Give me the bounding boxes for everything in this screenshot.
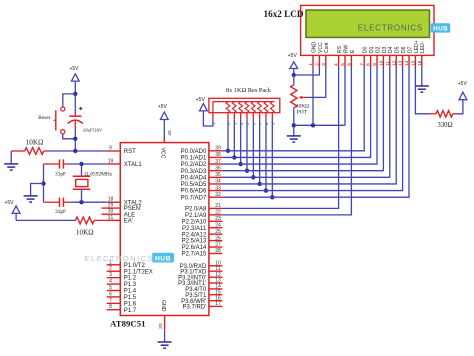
wire pot wiper to LCD pin3 Cont xyxy=(308,67,326,97)
resistor R1 10K (RST pulldown) xyxy=(11,148,48,155)
svg-text:10uF/16V: 10uF/16V xyxy=(83,127,102,132)
svg-text:10KΩ: 10KΩ xyxy=(76,228,94,236)
svg-text:P0.0/AD0: P0.0/AD0 xyxy=(181,149,207,155)
svg-text:P2.6/A14: P2.6/A14 xyxy=(182,245,207,251)
svg-text:VCC: VCC xyxy=(160,148,166,159)
svg-text:D3: D3 xyxy=(382,46,388,53)
svg-text:D6: D6 xyxy=(401,46,407,53)
svg-text:+5V: +5V xyxy=(196,97,206,103)
svg-text:P1.4: P1.4 xyxy=(124,289,137,295)
power +5V (pot) xyxy=(288,53,298,75)
svg-text:LED-: LED- xyxy=(420,41,426,53)
wire P0.2 to LCD D2 xyxy=(222,67,377,164)
svg-text:P1.6: P1.6 xyxy=(124,301,137,307)
svg-text:4: 4 xyxy=(109,279,112,285)
wire res pack output 1 to P0.0 xyxy=(227,119,229,150)
wire P0.4 to LCD D4 xyxy=(222,67,389,177)
wire reset bottom node to RST line xyxy=(74,139,76,151)
wire P0.1 to LCD D1 xyxy=(222,67,370,157)
wire pot top to LCD pin2 VCC xyxy=(294,67,320,75)
svg-text:8x 1KΩ Res Pack: 8x 1KΩ Res Pack xyxy=(226,87,272,94)
svg-text:13: 13 xyxy=(398,60,403,66)
svg-text:40: 40 xyxy=(167,130,173,136)
svg-text:P0.1/AD1: P0.1/AD1 xyxy=(181,156,207,162)
junction reset top node xyxy=(73,92,77,96)
wire res pack output 5 to P0.4 xyxy=(252,119,254,177)
junction crystal bottom / XTAL2 xyxy=(79,200,83,204)
junction P0.1 / res pack xyxy=(232,155,236,159)
svg-text:29: 29 xyxy=(108,203,114,209)
resistor R3 330 ohm xyxy=(430,111,458,117)
wire capacitor common leg xyxy=(43,164,45,202)
svg-text:XTAL1: XTAL1 xyxy=(124,162,143,168)
capacitor C3 10uF/16V electrolytic xyxy=(68,94,83,139)
capacitor C1 33pF (XTAL1) xyxy=(44,159,71,168)
svg-text:P0.5/AD5: P0.5/AD5 xyxy=(181,182,207,188)
svg-text:D7: D7 xyxy=(407,46,413,53)
wire +5V to R2 xyxy=(16,219,75,221)
svg-text:3: 3 xyxy=(321,63,326,66)
svg-text:P2.2/A10: P2.2/A10 xyxy=(182,219,207,225)
wire LCD pin1 GND down xyxy=(312,67,314,125)
svg-text:27: 27 xyxy=(215,242,221,248)
junction P0.4 / res pack xyxy=(251,175,255,179)
svg-text:11: 11 xyxy=(385,61,390,66)
power +5V (backlight) xyxy=(458,81,468,100)
svg-text:19: 19 xyxy=(108,159,114,165)
svg-text:16: 16 xyxy=(417,60,422,66)
svg-text:38: 38 xyxy=(215,152,221,158)
wire P2.1 to LCD E xyxy=(222,67,351,215)
junction RST / reset capacitor xyxy=(73,149,77,153)
junction pot bottom xyxy=(292,123,296,127)
power +5V (EA) xyxy=(4,200,20,221)
svg-text:+5V: +5V xyxy=(288,53,298,59)
svg-text:28: 28 xyxy=(215,248,221,254)
svg-text:VCC: VCC xyxy=(318,42,324,53)
wire RST net xyxy=(48,150,107,152)
svg-text:HUB: HUB xyxy=(433,26,448,33)
wire R3 to +5V xyxy=(458,100,463,114)
svg-text:P2.5/A13: P2.5/A13 xyxy=(182,239,207,245)
svg-text:D2: D2 xyxy=(375,46,381,53)
svg-text:Reset: Reset xyxy=(38,115,50,121)
svg-text:+5V: +5V xyxy=(4,200,14,206)
ground (crystal capacitors) xyxy=(24,196,38,202)
svg-text:P2.3/A11: P2.3/A11 xyxy=(182,226,207,232)
svg-text:RST: RST xyxy=(124,149,136,155)
svg-text:4: 4 xyxy=(334,63,339,66)
svg-text:24: 24 xyxy=(215,222,221,228)
wire C1 to XTAL1 node xyxy=(70,163,107,165)
resistor R2 10K (EA) xyxy=(75,217,120,224)
svg-text:3: 3 xyxy=(109,272,112,278)
ground (LCD backlight) xyxy=(415,86,429,92)
wire P0.3 to LCD D3 xyxy=(222,67,383,171)
svg-text:LED+: LED+ xyxy=(414,40,420,53)
crystal X1 11.0592MHz xyxy=(73,164,90,202)
svg-text:P0.3/AD3: P0.3/AD3 xyxy=(181,169,207,175)
svg-text:9: 9 xyxy=(372,63,377,66)
wire ground tap xyxy=(31,184,44,196)
wire res pack output 2 to P0.1 xyxy=(233,119,235,157)
svg-text:6: 6 xyxy=(347,63,352,66)
svg-text:P2.7/A15: P2.7/A15 xyxy=(182,252,207,258)
svg-text:37: 37 xyxy=(215,159,221,165)
wire P0.5 to LCD D5 xyxy=(222,67,396,184)
wire +5V to res pack pin 1 xyxy=(203,111,213,126)
svg-text:10KΩ: 10KΩ xyxy=(26,139,44,147)
svg-text:12: 12 xyxy=(391,60,396,66)
power +5V (reset circuit) xyxy=(69,66,79,94)
svg-text:36: 36 xyxy=(215,165,221,171)
svg-text:5: 5 xyxy=(340,63,345,66)
svg-text:7: 7 xyxy=(109,298,112,304)
svg-text:39: 39 xyxy=(215,146,221,152)
junction LCD GND / ground bus xyxy=(311,123,315,127)
svg-text:P1.7: P1.7 xyxy=(124,308,137,314)
wire LCD pin15 LED+ to R3 xyxy=(415,67,430,114)
svg-text:6: 6 xyxy=(109,291,112,297)
svg-text:34: 34 xyxy=(215,179,221,185)
svg-text:5: 5 xyxy=(109,285,112,291)
svg-text:22: 22 xyxy=(215,210,221,216)
svg-text:P0.7/AD7: P0.7/AD7 xyxy=(181,195,207,201)
svg-text:31: 31 xyxy=(108,215,114,221)
wire P0.6 to LCD D6 xyxy=(222,67,402,191)
ground (R1) xyxy=(4,164,18,170)
svg-text:GND: GND xyxy=(311,42,317,54)
IC U1 AT89C51 microcontroller xyxy=(85,143,223,316)
svg-text:35: 35 xyxy=(215,172,221,178)
svg-text:ALE: ALE xyxy=(124,212,135,218)
pushbutton Reset xyxy=(54,107,65,134)
svg-text:8: 8 xyxy=(109,304,112,310)
resistor pack RP1 8x1K xyxy=(209,98,280,125)
svg-text:+5V: +5V xyxy=(458,81,468,87)
svg-text:330Ω: 330Ω xyxy=(437,122,452,129)
svg-text:2: 2 xyxy=(109,266,112,272)
svg-text:11.0592MHz: 11.0592MHz xyxy=(84,172,113,178)
svg-text:P2.0/A8: P2.0/A8 xyxy=(185,207,207,213)
svg-text:33: 33 xyxy=(215,185,221,191)
svg-text:POT: POT xyxy=(297,110,308,116)
wire res pack output 4 to P0.3 xyxy=(246,119,248,170)
svg-text:PSEN': PSEN' xyxy=(124,206,141,212)
svg-text:D1: D1 xyxy=(369,46,375,53)
svg-text:RW: RW xyxy=(343,44,349,53)
ground (pot) xyxy=(287,136,301,142)
svg-text:P0.2/AD2: P0.2/AD2 xyxy=(181,162,207,168)
wire R1 to ground xyxy=(10,151,12,164)
svg-text:AT89C51: AT89C51 xyxy=(110,319,146,329)
junction P0.5 / res pack xyxy=(257,182,261,186)
svg-text:15: 15 xyxy=(411,60,416,66)
LCD module 16x2 xyxy=(301,5,451,67)
svg-text:D0: D0 xyxy=(363,46,369,53)
ground (chip GND) xyxy=(158,342,172,348)
wire VCC pin 40 xyxy=(163,122,165,143)
junction P0.3 / res pack xyxy=(245,168,249,172)
svg-text:8: 8 xyxy=(366,63,371,66)
junction capacitor ground tap xyxy=(41,181,45,185)
svg-text:+5V: +5V xyxy=(69,66,79,72)
svg-text:26: 26 xyxy=(215,235,221,241)
svg-text:30: 30 xyxy=(108,209,114,215)
svg-text:23: 23 xyxy=(215,216,221,222)
wire res pack output 6 to P0.5 xyxy=(259,119,261,184)
svg-text:P1.0/T2: P1.0/T2 xyxy=(124,263,146,269)
wire P0.7 to LCD D7 xyxy=(222,67,409,197)
svg-text:P1.3: P1.3 xyxy=(124,282,137,288)
capacitor C2 33pF (XTAL2) xyxy=(44,198,71,207)
potentiometer RV1 10K xyxy=(291,75,308,136)
wire P0.0 to LCD D0 xyxy=(222,67,364,151)
svg-text:HUB: HUB xyxy=(155,255,171,262)
junction crystal top / XTAL1 xyxy=(79,162,83,166)
power +5V (res pack) xyxy=(196,97,208,111)
svg-text:17: 17 xyxy=(215,301,221,307)
svg-text:Cont: Cont xyxy=(324,42,330,53)
junction P0.2 / res pack xyxy=(238,162,242,166)
svg-text:+5V: +5V xyxy=(158,104,168,110)
junction P0.7 / res pack xyxy=(270,195,274,199)
svg-text:ELECTRONICS: ELECTRONICS xyxy=(358,24,423,33)
svg-text:9: 9 xyxy=(109,146,112,152)
svg-text:14: 14 xyxy=(404,60,409,66)
junction P0.0 / res pack xyxy=(226,149,230,153)
svg-text:D4: D4 xyxy=(388,46,394,53)
junction P0.6 / res pack xyxy=(264,188,268,192)
svg-text:P2.1/A9: P2.1/A9 xyxy=(185,213,207,219)
svg-text:16x2 LCD: 16x2 LCD xyxy=(264,9,304,19)
svg-text:P3.7/RD': P3.7/RD' xyxy=(182,305,206,311)
power +5V (VCC pin 40) xyxy=(158,104,168,122)
svg-text:RS: RS xyxy=(337,45,343,53)
svg-text:GND: GND xyxy=(160,300,166,312)
junction pot top / LCD VCC xyxy=(292,73,296,77)
wire res pack output 8 to P0.7 xyxy=(271,119,273,197)
svg-text:10: 10 xyxy=(379,60,384,66)
svg-text:EA': EA' xyxy=(124,219,133,225)
svg-text:ELECTRONICS: ELECTRONICS xyxy=(85,254,154,263)
svg-text:1: 1 xyxy=(109,259,112,265)
wire pushbutton bottom to reset bottom node xyxy=(63,134,76,139)
wire P2.0 to LCD RS xyxy=(222,67,338,208)
svg-text:1: 1 xyxy=(308,63,313,66)
junction reset bottom node xyxy=(73,137,77,141)
wire LCD pin16 LED- to ground xyxy=(421,67,423,86)
svg-text:P0.6/AD6: P0.6/AD6 xyxy=(181,189,207,195)
svg-text:25: 25 xyxy=(215,229,221,235)
svg-text:7: 7 xyxy=(359,63,364,66)
wire reset top node to pushbutton xyxy=(63,94,76,107)
svg-text:33pF: 33pF xyxy=(55,171,66,177)
svg-text:D5: D5 xyxy=(395,46,401,53)
svg-text:33pF: 33pF xyxy=(55,209,66,215)
svg-text:P1.5: P1.5 xyxy=(124,295,137,301)
svg-text:P0.4/AD4: P0.4/AD4 xyxy=(181,175,207,181)
wire res pack output 7 to P0.6 xyxy=(265,119,267,190)
svg-text:P2.4/A12: P2.4/A12 xyxy=(182,232,207,238)
svg-text:20: 20 xyxy=(158,323,164,329)
svg-text:21: 21 xyxy=(215,203,221,209)
wire C2 to XTAL2 node xyxy=(70,201,107,203)
wire res pack output 3 to P0.2 xyxy=(240,119,242,164)
svg-text:P1.1/T2EX: P1.1/T2EX xyxy=(124,269,153,275)
svg-text:P1.2: P1.2 xyxy=(124,276,137,282)
wire ground bus to LCD RW xyxy=(294,124,345,126)
wire GND pin 20 xyxy=(164,316,166,343)
svg-text:2: 2 xyxy=(315,63,320,66)
svg-text:32: 32 xyxy=(215,192,221,198)
